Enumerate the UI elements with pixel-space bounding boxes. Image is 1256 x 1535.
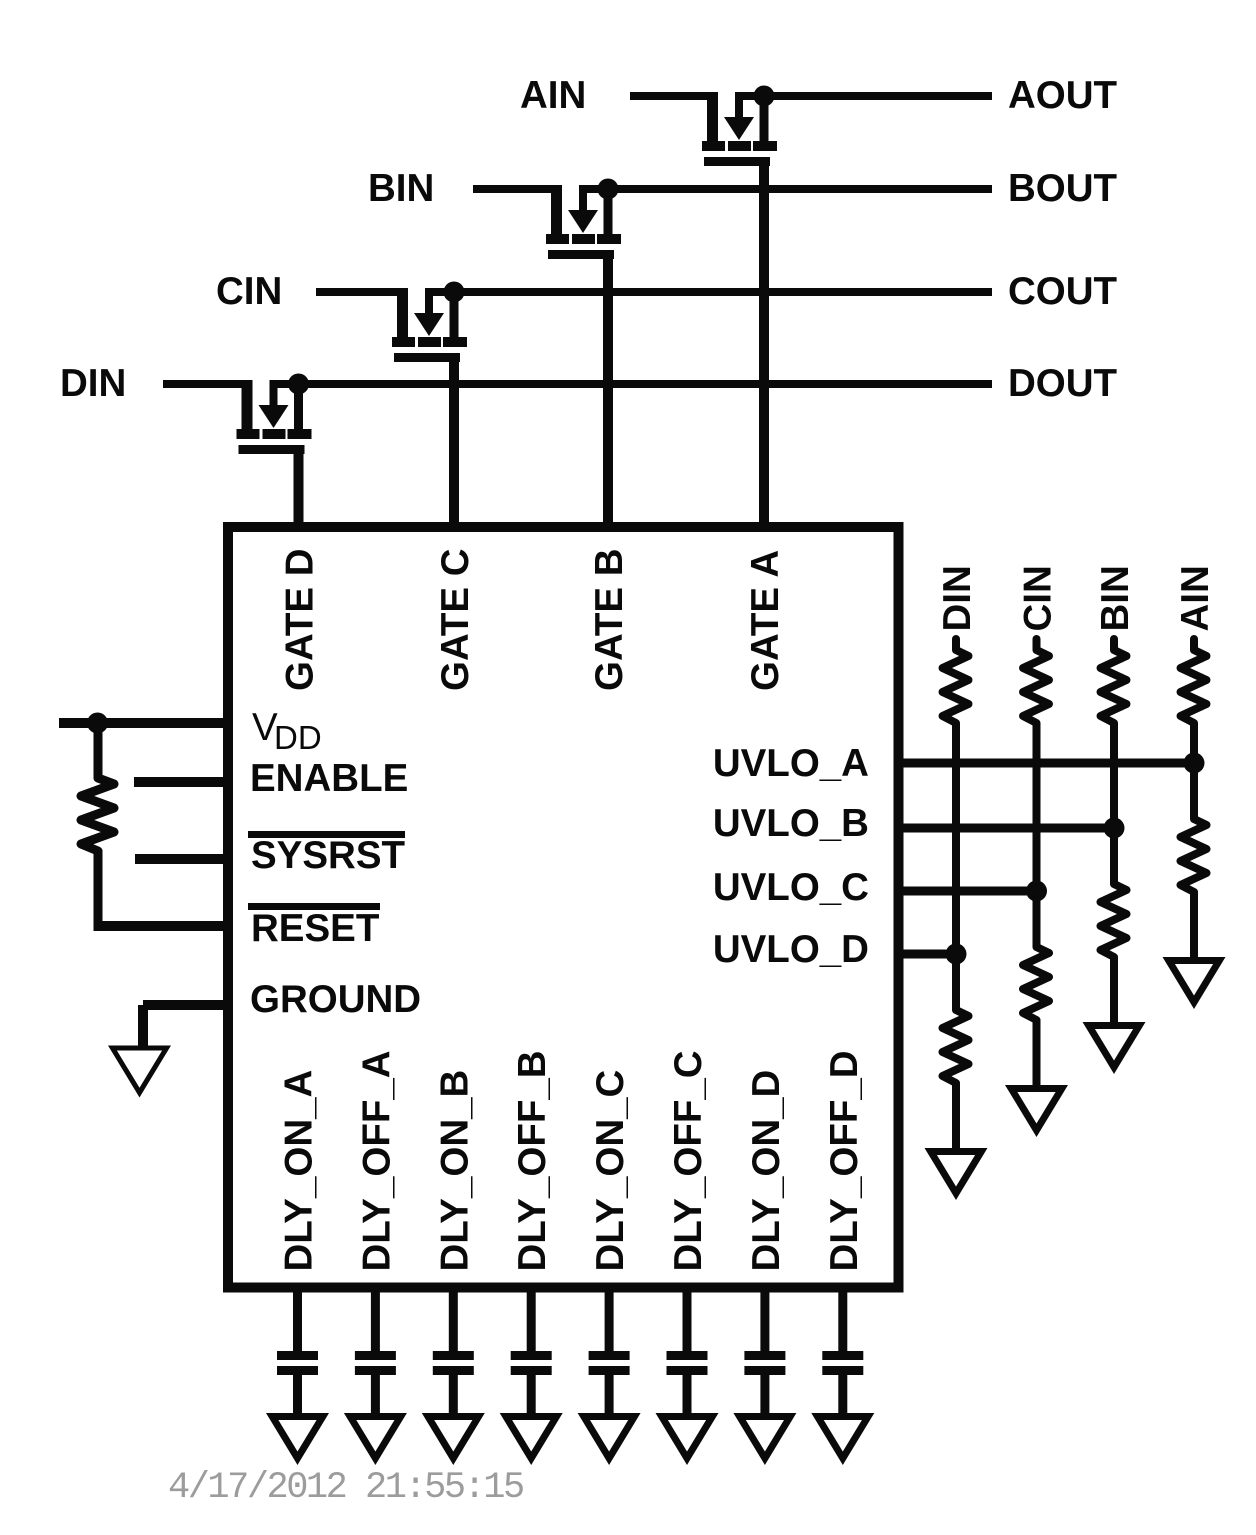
wire CIN input: [316, 288, 408, 296]
IC block U1 outline: [228, 527, 899, 1288]
wire UVLO_A net: [894, 759, 1195, 768]
resistor RB2 (to ground): [1110, 828, 1118, 873]
svg-text:GATE B: GATE B: [588, 548, 631, 691]
capacitor C7 (DLY_ON_D): [760, 1283, 769, 1352]
ground symbol (GROUND pin): [108, 1046, 171, 1098]
node AOUT junction dot: [754, 86, 775, 107]
resistor RC1 (to CIN): [1023, 639, 1049, 723]
wire RESET pin to R1: [94, 921, 229, 931]
resistor RA2 (to ground): [1190, 763, 1198, 808]
transistor QD (pass FET DIN-DOUT): [237, 380, 312, 454]
resistor R1 (VDD pull): [94, 723, 103, 768]
resistor RC2 (to ground): [1033, 891, 1041, 936]
ground symbol (D divider): [925, 1148, 988, 1200]
svg-text:UVLO_B: UVLO_B: [713, 802, 869, 845]
svg-text:DLY_OFF_B: DLY_OFF_B: [511, 1050, 554, 1271]
ground symbol (DLY_OFF_A cap): [344, 1413, 407, 1465]
ground symbol (DLY_ON_C cap): [578, 1413, 641, 1465]
svg-text:RESET: RESET: [251, 907, 380, 950]
svg-text:DLY_OFF_D: DLY_OFF_D: [823, 1050, 866, 1271]
wire GATE D (FET gate to IC pin): [294, 445, 304, 532]
wire BOUT output: [579, 185, 992, 193]
wire DIN input: [163, 380, 253, 388]
ground symbol (DLY_OFF_B cap): [500, 1413, 563, 1465]
wire GATE C (FET gate to IC pin): [449, 353, 459, 532]
capacitor C2 (DLY_OFF_A): [371, 1283, 380, 1352]
wire COUT output: [425, 288, 992, 296]
transistor QC (pass FET CIN-COUT): [392, 288, 467, 362]
overline for SYSRST: [248, 831, 405, 838]
svg-text:SYSRST: SYSRST: [251, 834, 406, 877]
svg-text:GATE D: GATE D: [279, 548, 322, 691]
svg-text:DLY_ON_B: DLY_ON_B: [433, 1070, 476, 1272]
svg-text:BIN: BIN: [1094, 565, 1137, 631]
ground symbol (B divider): [1083, 1022, 1146, 1074]
svg-text:GATE A: GATE A: [744, 550, 787, 691]
wire GROUND pin stub: [143, 1000, 228, 1010]
svg-text:BOUT: BOUT: [1008, 167, 1118, 210]
capacitor C1 (DLY_ON_A): [293, 1283, 302, 1352]
node UVLO_B junction dot: [1104, 818, 1125, 839]
node VDD junction dot: [87, 713, 108, 734]
wire UVLO_D net: [894, 950, 957, 959]
overline for RESET: [248, 903, 380, 910]
resistor RB1 (to BIN): [1101, 639, 1127, 723]
svg-text:AIN: AIN: [520, 74, 586, 117]
resistor RA1 (to AIN): [1181, 639, 1207, 723]
capacitor C4 (DLY_OFF_B): [527, 1283, 536, 1352]
wire UVLO_C net: [894, 887, 1037, 896]
svg-text:DIN: DIN: [936, 565, 979, 631]
ground symbol (A divider): [1163, 957, 1226, 1009]
svg-text:DIN: DIN: [60, 362, 126, 405]
node BOUT junction dot: [598, 179, 619, 200]
svg-text:DOUT: DOUT: [1008, 362, 1118, 405]
svg-text:AOUT: AOUT: [1008, 74, 1118, 117]
svg-text:4/17/2012 21:55:15: 4/17/2012 21:55:15: [168, 1467, 523, 1509]
wire AOUT output: [735, 92, 992, 100]
resistor RD2 (to ground): [952, 954, 960, 999]
ground symbol (DLY_ON_B cap): [422, 1413, 485, 1465]
svg-text:UVLO_A: UVLO_A: [713, 742, 869, 785]
capacitor C8 (DLY_OFF_D): [838, 1283, 847, 1352]
wire VDD: [59, 718, 228, 728]
wire UVLO_B net: [894, 824, 1115, 833]
svg-text:DD: DD: [274, 719, 322, 756]
svg-text:UVLO_C: UVLO_C: [713, 866, 869, 909]
capacitor C5 (DLY_ON_C): [605, 1283, 614, 1352]
ground symbol (DLY_ON_A cap): [266, 1413, 329, 1465]
transistor QA (pass FET AIN-AOUT): [702, 92, 777, 166]
wire DOUT output: [270, 380, 993, 388]
svg-text:ENABLE: ENABLE: [250, 757, 408, 800]
transistor QB (pass FET BIN-BOUT): [546, 185, 621, 259]
svg-text:UVLO_D: UVLO_D: [713, 928, 869, 971]
node UVLO_C junction dot: [1026, 881, 1047, 902]
svg-text:CIN: CIN: [1017, 565, 1060, 631]
svg-text:DLY_ON_A: DLY_ON_A: [278, 1070, 321, 1272]
svg-text:COUT: COUT: [1008, 270, 1118, 313]
svg-text:DLY_ON_C: DLY_ON_C: [589, 1070, 632, 1272]
svg-text:GROUND: GROUND: [250, 978, 421, 1021]
node COUT junction dot: [444, 282, 465, 303]
svg-text:CIN: CIN: [216, 270, 282, 313]
node UVLO_D junction dot: [946, 944, 967, 965]
wire BIN input: [473, 185, 562, 193]
resistor RD1 (to DIN): [943, 639, 969, 723]
wire AIN input: [630, 92, 718, 100]
capacitor C3 (DLY_ON_B): [449, 1283, 458, 1352]
capacitor C6 (DLY_OFF_C): [683, 1283, 692, 1352]
wire ENABLE pin stub: [134, 777, 228, 787]
ground symbol (DLY_OFF_C cap): [656, 1413, 719, 1465]
svg-text:DLY_OFF_A: DLY_OFF_A: [355, 1050, 398, 1271]
svg-text:DLY_OFF_C: DLY_OFF_C: [667, 1050, 710, 1271]
wire SYSRST pin stub: [135, 854, 228, 864]
wire GATE A (FET gate to IC pin): [759, 157, 769, 532]
ground symbol (DLY_ON_D cap): [733, 1413, 796, 1465]
node UVLO_A junction dot: [1184, 753, 1205, 774]
node DOUT junction dot: [288, 374, 309, 395]
ground symbol (DLY_OFF_D cap): [811, 1413, 874, 1465]
svg-text:DLY_ON_D: DLY_ON_D: [745, 1070, 788, 1272]
wire GATE B (FET gate to IC pin): [603, 250, 613, 532]
ground symbol (C divider): [1005, 1085, 1068, 1137]
svg-text:BIN: BIN: [368, 167, 434, 210]
svg-text:GATE C: GATE C: [434, 548, 477, 691]
svg-text:AIN: AIN: [1174, 565, 1217, 631]
